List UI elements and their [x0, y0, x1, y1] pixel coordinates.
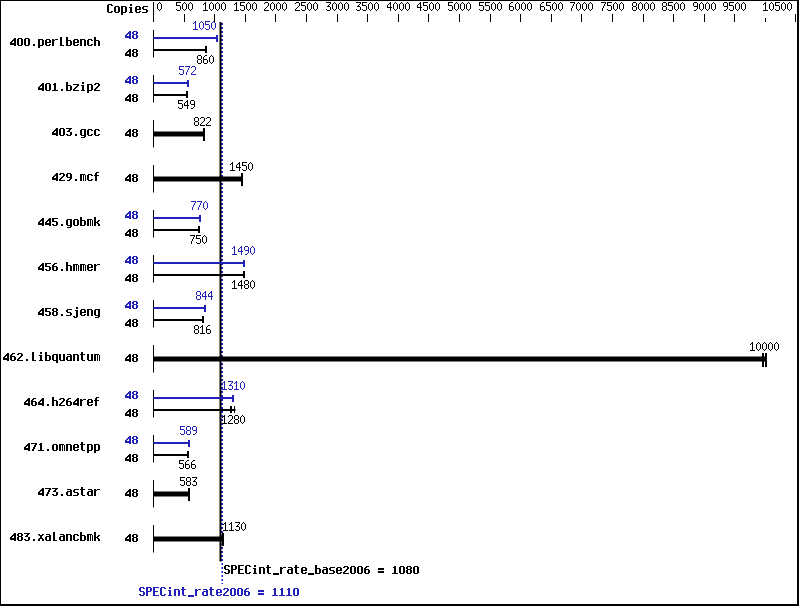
- base result text: [225, 565, 229, 566]
- base reference line 1080: [219, 22, 221, 562]
- benchmark group 400.perlbench: [14, 38, 16, 39]
- benchmark group 462.libquantum: [7, 353, 9, 354]
- axis ticks and labels: [159, 2, 160, 3]
- peak result text: [140, 587, 144, 588]
- benchmark group 483.xalancbmk: [14, 533, 16, 534]
- benchmark group 464.h264ref: [28, 398, 30, 399]
- benchmark group 445.gobmk: [42, 218, 44, 219]
- y-axis line: [153, 2, 154, 22]
- benchmark group 401.bzip2: [42, 83, 44, 84]
- copies column header: [108, 4, 112, 5]
- peak reference line 1110 (dotted): [221, 23, 223, 584]
- benchmark group 458.sjeng: [42, 308, 44, 309]
- benchmark group 473.astar: [42, 488, 44, 489]
- benchmark group 456.hmmer: [42, 263, 44, 264]
- benchmark group 403.gcc: [56, 128, 58, 129]
- border frame: [0, 0, 799, 1]
- benchmark group 471.omnetpp: [28, 443, 30, 444]
- benchmark group 429.mcf: [56, 173, 58, 174]
